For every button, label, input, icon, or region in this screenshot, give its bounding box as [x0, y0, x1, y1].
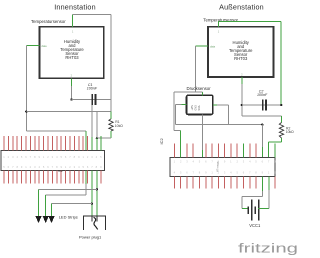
wire W1 horizontal	[26, 111, 111, 113]
IC1 green pin	[100, 136, 102, 150]
junction: SDA/IC2	[261, 123, 263, 125]
wire: U1 left data pin	[26, 45, 39, 47]
wire: VCC to R2 horizontal	[242, 115, 282, 117]
power plug J1	[83, 216, 105, 230]
IC2 pin numbers top row	[174, 160, 277, 164]
wire: U1 pin1 up	[72, 14, 74, 26]
sensor U3 RHT03 body	[208, 27, 274, 77]
IC1 pin numbers top row	[3, 155, 102, 159]
junction: C2 left	[241, 104, 243, 106]
wire: middle vertical x=173.8	[173, 92, 175, 131]
wire: BMP left pin	[182, 104, 187, 106]
wire: R2 bottom to IC2 pin	[269, 142, 282, 157]
wire: C1 left plate down to IC1	[91, 105, 93, 137]
wire: BMP bottom pin down to IC2	[201, 115, 203, 151]
wire: battery right to IC2 pin	[258, 207, 269, 209]
capacitor C2 plates	[262, 99, 264, 110]
wire: IC1 pin down col C (to plug)	[96, 171, 98, 217]
resistor R1 bottom lead	[110, 131, 112, 138]
wire: data down to BMP net	[195, 46, 197, 92]
wire: IC1 pin down col B (to plug)	[91, 171, 93, 217]
svg-text:ATmega: ATmega	[216, 161, 220, 172]
junction: C1 wire left end	[70, 98, 72, 100]
wire: IC2 pin to battery left	[261, 177, 263, 191]
wire W2 horizontal	[26, 130, 86, 132]
wire: long green vertical right	[280, 22, 282, 106]
wire: U3 pin1 up	[218, 22, 220, 27]
resistor R2 bottom lead	[281, 138, 283, 142]
svg-text:2: 2	[274, 171, 276, 175]
svg-text:Innenstation: Innenstation	[54, 3, 96, 12]
wire: BMP right pin	[213, 104, 217, 106]
wire: LED net 3	[52, 203, 92, 205]
LED strip arrow 2	[45, 195, 47, 217]
LED strip arrow 1	[38, 189, 40, 217]
wire: left vertical bus	[25, 46, 27, 131]
IC2 bottom pin row	[174, 177, 275, 189]
resistor R2 zigzag	[279, 123, 283, 138]
capacitor C2 net wire	[242, 104, 281, 106]
wire: IC1 pin down col A	[85, 171, 87, 185]
wire: W2 down to IC1 pin	[85, 131, 87, 151]
wire: U1 bottom pin down	[70, 78, 72, 86]
wire: bend to IC2 pin	[174, 130, 181, 132]
wire: BMP top net horizontal	[174, 91, 203, 93]
sensor U1 RHT03 body	[40, 27, 104, 79]
junction col C	[96, 188, 98, 190]
wire: U3 bottom pin down	[241, 77, 243, 84]
capacitor C1 plates	[91, 94, 93, 105]
svg-text:Power plug1: Power plug1	[79, 235, 102, 240]
wire: node down to IC1 pin	[96, 138, 98, 150]
IC2 top pin row	[174, 144, 256, 158]
junction: left bus / W1	[25, 110, 27, 112]
svg-text:RHT03: RHT03	[65, 55, 79, 60]
svg-text:8: 8	[274, 160, 276, 164]
svg-text:100nF: 100nF	[257, 93, 268, 97]
svg-text:data: data	[210, 45, 216, 49]
svg-text:RHT03: RHT03	[234, 56, 248, 61]
wire: R1 bottom to node	[97, 137, 111, 139]
svg-text:VCC1: VCC1	[249, 223, 261, 228]
svg-text:Drucksensor: Drucksensor	[187, 86, 212, 91]
IC1 pin numbers bottom row	[3, 165, 102, 169]
svg-text:LED Strips: LED Strips	[59, 214, 78, 219]
resistor R1 zigzag	[109, 119, 113, 131]
svg-text:IC2: IC2	[159, 138, 164, 145]
svg-text:10kΩ: 10kΩ	[286, 130, 294, 134]
wire: LED net 2	[46, 194, 86, 196]
IC1 top pin row	[4, 136, 101, 150]
svg-text:IC1: IC1	[58, 169, 63, 173]
junction col B	[91, 202, 93, 204]
LED strip arrow 3	[51, 204, 53, 217]
junction: green/C2	[280, 104, 282, 106]
resistor R1 top lead	[110, 112, 112, 119]
junction: R1 node	[96, 137, 98, 139]
wire: down to IC2 pin	[261, 125, 263, 147]
wire: SDA bus horizontal y=124.6	[176, 124, 263, 126]
svg-text:data: data	[42, 44, 48, 48]
wire: top horizontal to right	[73, 13, 111, 15]
svg-text:Außenstation: Außenstation	[219, 3, 264, 12]
wire: BMP top pin	[201, 92, 203, 96]
svg-text:Temperatursensor: Temperatursensor	[31, 19, 66, 24]
battery VCC1 plates	[248, 200, 260, 221]
svg-text:100nF: 100nF	[87, 87, 98, 91]
IC2 pin numbers bottom row	[174, 171, 277, 175]
IC U5 (IC2) body	[170, 158, 275, 177]
wire: station2 top horizontal	[219, 21, 282, 23]
wire: vertical x=111 down to C1 net	[110, 14, 112, 111]
svg-text:SDA: SDA	[198, 105, 201, 110]
wire: node vertical to W1	[96, 112, 98, 139]
IC2 top green pins	[181, 144, 275, 158]
svg-text:10kΩ: 10kΩ	[115, 124, 123, 128]
resistor R2 top lead	[281, 116, 283, 123]
wire: U3 left data pin	[196, 45, 208, 47]
pressure sensor U4 body	[187, 95, 213, 114]
wire: LED net 1	[39, 188, 97, 190]
capacitor C1 net wire	[71, 99, 111, 101]
IC1 bottom pin row	[4, 171, 101, 184]
IC U2 (IC1) body	[1, 151, 105, 171]
svg-text:fritzing: fritzing	[238, 241, 298, 256]
